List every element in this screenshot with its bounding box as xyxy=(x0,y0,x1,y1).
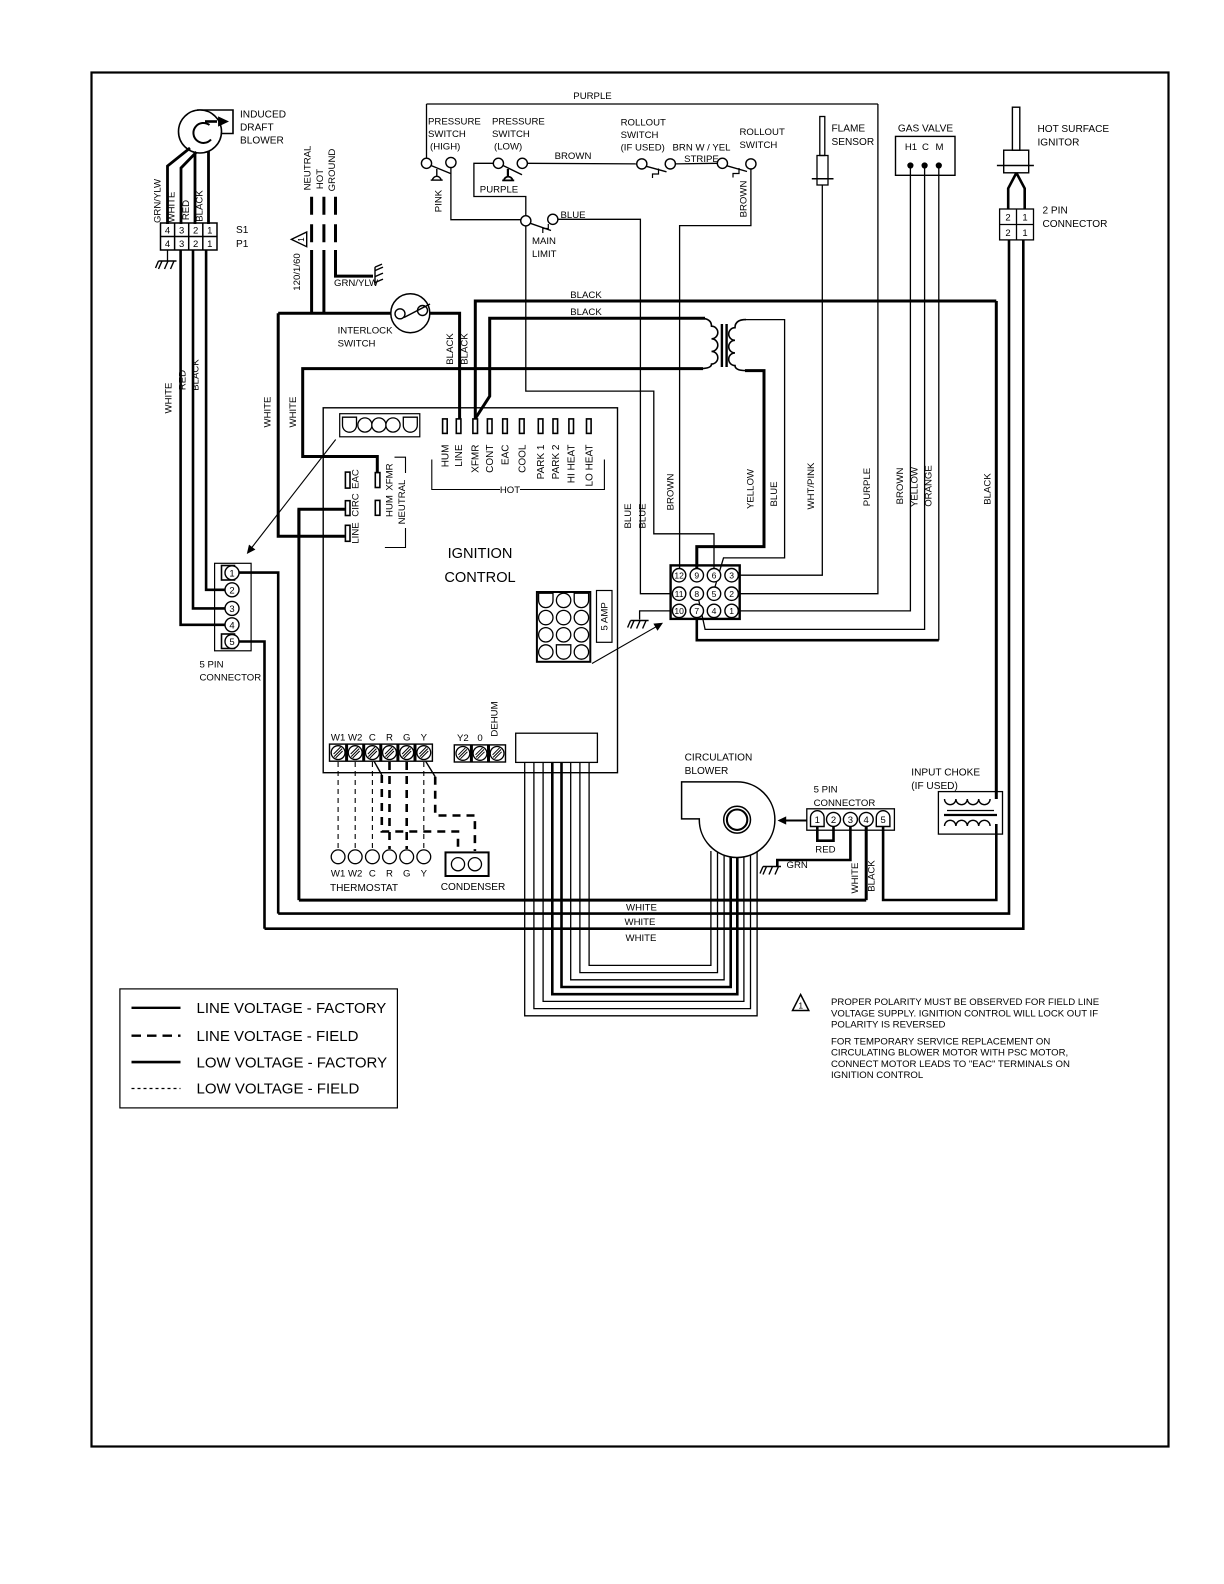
wire WHITE transformer primary return xyxy=(303,369,703,474)
svg-text:CONNECTOR: CONNECTOR xyxy=(814,798,876,809)
wire BROWN low switch to rollout (if used) xyxy=(527,162,636,165)
wire BLACK pin 5 to input choke xyxy=(883,824,996,900)
svg-text:GRN/YLW: GRN/YLW xyxy=(334,278,379,289)
5 pin connector pin 1 xyxy=(222,566,235,581)
blower connector pin 2 xyxy=(827,812,841,826)
fuse rating 5 AMP xyxy=(597,591,613,643)
svg-text:SWITCH: SWITCH xyxy=(428,129,466,140)
svg-text:HOT SURFACE: HOT SURFACE xyxy=(1038,124,1110,135)
svg-text:LINE: LINE xyxy=(351,522,362,543)
12-pin connector pin 8 xyxy=(690,587,703,600)
legend sample LOW VOLTAGE - FACTORY xyxy=(132,1061,181,1064)
svg-text:Y: Y xyxy=(421,733,428,744)
rollout switch xyxy=(717,158,727,168)
svg-text:RED: RED xyxy=(815,845,835,856)
svg-text:BLACK: BLACK xyxy=(570,290,602,301)
12-pin connector pin 3 xyxy=(725,569,738,582)
condenser xyxy=(446,852,489,876)
wire HOT dashed field xyxy=(322,197,325,252)
svg-text:ROLLOUT: ROLLOUT xyxy=(740,127,785,138)
svg-text:BLACK: BLACK xyxy=(570,307,602,318)
svg-text:4: 4 xyxy=(165,226,170,237)
svg-text:MAIN: MAIN xyxy=(532,236,556,247)
svg-text:CONTROL: CONTROL xyxy=(444,570,515,586)
svg-text:IGNITION CONTROL: IGNITION CONTROL xyxy=(831,1070,924,1081)
wire WHITE P1 pin3 to 5-pin connector pin4 xyxy=(181,250,225,625)
svg-text:R: R xyxy=(386,869,393,880)
12-pin connector pin 5 xyxy=(707,587,720,600)
wire YELLOW transformer secondary bottom to 12-pin pin 9 xyxy=(697,371,764,569)
wire BLACK blower to S1 pin1 xyxy=(207,151,210,224)
ground GRN (blower) xyxy=(760,867,781,875)
wire BROWN rollout to 12-pin pin 12 xyxy=(680,169,751,569)
svg-text:CONNECTOR: CONNECTOR xyxy=(200,673,262,684)
svg-text:CONNECTOR: CONNECTOR xyxy=(1043,219,1108,230)
svg-text:GRN: GRN xyxy=(787,860,808,871)
blower connector pin 4 xyxy=(859,812,873,826)
5 pin connector body (blower) xyxy=(807,809,895,830)
svg-text:WHITE: WHITE xyxy=(850,863,861,894)
svg-text:5: 5 xyxy=(229,637,234,648)
wire RED P1 pin2 to 5-pin connector pin3 xyxy=(193,250,225,608)
svg-text:BLUE: BLUE xyxy=(623,503,634,528)
svg-text:W1: W1 xyxy=(331,733,345,744)
svg-text:PARK 1: PARK 1 xyxy=(536,444,547,479)
connector S1/P1 body xyxy=(161,223,218,250)
svg-text:BLACK: BLACK xyxy=(445,333,456,365)
svg-text:3: 3 xyxy=(229,604,234,615)
wire Y thermostat dashed xyxy=(423,762,425,849)
circulation blower scroll xyxy=(682,782,775,858)
legend sample LINE VOLTAGE - FIELD xyxy=(132,1034,181,1036)
wire W2 thermostat dashed xyxy=(354,762,356,849)
wire NEUTRAL dashed field xyxy=(310,197,313,252)
svg-text:1: 1 xyxy=(1022,228,1027,239)
svg-text:(LOW): (LOW) xyxy=(494,142,522,153)
svg-text:SWITCH: SWITCH xyxy=(740,140,778,151)
wire Y to condenser xyxy=(426,762,435,777)
wire W1 thermostat dashed xyxy=(337,762,339,849)
12-pin connector pin 4 xyxy=(707,604,720,617)
svg-text:H1: H1 xyxy=(905,142,917,153)
svg-text:LINE VOLTAGE - FIELD: LINE VOLTAGE - FIELD xyxy=(197,1028,359,1045)
svg-text:4: 4 xyxy=(864,815,869,826)
svg-text:BROWN: BROWN xyxy=(738,181,749,218)
svg-text:10: 10 xyxy=(674,606,684,616)
svg-text:1: 1 xyxy=(229,568,234,579)
gas valve body xyxy=(896,136,956,175)
wire GROUND to earth xyxy=(336,250,374,276)
svg-text:M: M xyxy=(936,142,944,153)
svg-text:RED: RED xyxy=(181,200,192,220)
wire BLUE main limit in to 12-pin pin 6 xyxy=(526,226,714,569)
svg-text:PRESSURE: PRESSURE xyxy=(428,117,481,128)
gas valve terminal C xyxy=(922,163,927,168)
svg-text:(IF USED): (IF USED) xyxy=(621,143,665,154)
ground GRN/YLW earth symbol xyxy=(375,264,383,285)
svg-text:HI HEAT: HI HEAT xyxy=(567,445,578,484)
svg-text:W2: W2 xyxy=(348,733,362,744)
wire GROUND dashed field xyxy=(334,197,337,252)
svg-text:2 PIN: 2 PIN xyxy=(1043,206,1068,217)
wire PURPLE top run xyxy=(427,103,878,105)
svg-text:FLAME: FLAME xyxy=(832,124,866,135)
svg-text:CONNECT MOTOR LEADS TO "EAC" T: CONNECT MOTOR LEADS TO "EAC" TERMINALS O… xyxy=(831,1059,1070,1070)
ground at 12-pin pin 10 xyxy=(640,611,672,620)
wire neutral/hot horizontal at interlock level xyxy=(278,312,391,315)
svg-text:BLACK: BLACK xyxy=(191,359,202,391)
12-pin connector pin 9 xyxy=(690,569,703,582)
svg-text:W2: W2 xyxy=(348,869,362,880)
svg-text:HOT: HOT xyxy=(315,169,326,189)
svg-text:5 PIN: 5 PIN xyxy=(814,785,838,796)
svg-text:1: 1 xyxy=(207,239,212,250)
svg-text:THERMOSTAT: THERMOSTAT xyxy=(330,883,398,894)
blower lead connector (ignition control) xyxy=(516,733,598,762)
transformer T1 core xyxy=(721,324,723,367)
svg-text:9: 9 xyxy=(694,570,699,580)
svg-text:LO HEAT: LO HEAT xyxy=(584,445,595,487)
hot surface ignitor xyxy=(1012,107,1019,150)
svg-text:VOLTAGE SUPPLY. IGNITION CONT: VOLTAGE SUPPLY. IGNITION CONTROL WILL LO… xyxy=(831,1008,1098,1019)
wire BROWN gas valve H1 to 12-pin pin 1 xyxy=(739,168,911,611)
svg-text:RED: RED xyxy=(178,370,189,390)
input choke bottom winding xyxy=(945,820,991,826)
svg-text:2: 2 xyxy=(229,585,234,596)
svg-text:8: 8 xyxy=(694,589,699,599)
svg-text:2: 2 xyxy=(729,589,734,599)
svg-text:HOT: HOT xyxy=(500,485,520,496)
pressure switch (low) xyxy=(493,158,503,168)
transformer T1 primary winding xyxy=(700,318,718,368)
svg-text:C: C xyxy=(369,869,376,880)
legend sample LINE VOLTAGE - FACTORY xyxy=(132,1007,181,1009)
svg-text:3: 3 xyxy=(179,226,184,237)
svg-text:FOR TEMPORARY SERVICE REPLACEM: FOR TEMPORARY SERVICE REPLACEMENT ON xyxy=(831,1036,1050,1047)
12-pin connector pin 6 xyxy=(707,569,720,582)
terminal bar EAC (line side) xyxy=(345,472,350,488)
svg-text:WHITE: WHITE xyxy=(625,917,656,928)
svg-text:PURPLE: PURPLE xyxy=(573,91,611,102)
svg-text:PURPLE: PURPLE xyxy=(480,185,518,196)
wire 5-pin pin1 riser xyxy=(239,573,278,914)
wire rollout jumper xyxy=(675,162,717,165)
fuse block xyxy=(537,592,590,662)
svg-text:S1: S1 xyxy=(236,225,249,236)
svg-text:BLACK: BLACK xyxy=(195,190,206,222)
svg-text:1: 1 xyxy=(798,1001,803,1011)
svg-text:P1: P1 xyxy=(236,239,249,250)
svg-text:IGNITION: IGNITION xyxy=(448,546,513,562)
svg-text:3: 3 xyxy=(848,815,853,826)
wire BLUE transformer secondary top to 12-pin pin 5 xyxy=(715,320,785,589)
svg-text:LINE: LINE xyxy=(454,444,465,467)
svg-text:6: 6 xyxy=(712,570,717,580)
svg-text:PRESSURE: PRESSURE xyxy=(492,117,545,128)
svg-text:SWITCH: SWITCH xyxy=(621,130,659,141)
svg-text:2: 2 xyxy=(1005,228,1010,239)
thermostat terminal block W1 W2 C R G Y xyxy=(330,744,433,761)
svg-text:PURPLE: PURPLE xyxy=(862,468,873,506)
svg-text:SENSOR: SENSOR xyxy=(832,137,875,148)
ground at S1 pin4 xyxy=(167,250,169,261)
svg-text:BLOWER: BLOWER xyxy=(240,136,284,147)
wire NEUTRAL solid xyxy=(310,250,313,313)
dehum terminal block Y2 0 DEHUM xyxy=(454,745,505,762)
induced draft blower scroll body xyxy=(197,110,233,134)
svg-text:WHITE: WHITE xyxy=(288,397,299,428)
svg-text:CONDENSER: CONDENSER xyxy=(441,882,506,893)
svg-text:1: 1 xyxy=(207,226,212,237)
svg-text:7: 7 xyxy=(694,606,699,616)
wire HOT solid xyxy=(322,250,325,313)
wire PURPLE drop to 12-pin pin 2 xyxy=(739,104,878,594)
svg-text:ORANGE: ORANGE xyxy=(924,465,935,507)
svg-text:IGNITOR: IGNITOR xyxy=(1038,138,1080,149)
wire WHITE bus (blower pin4) xyxy=(299,899,866,902)
wire ORANGE gas valve M to 12-pin pin 7 xyxy=(938,168,940,640)
svg-text:1: 1 xyxy=(297,237,306,242)
ignitor leads to 2 pin connector xyxy=(1008,173,1016,209)
wire ignitor pin1 to 5-pin connector pin 5 xyxy=(265,240,1024,929)
svg-text:BLOWER: BLOWER xyxy=(685,766,729,777)
svg-text:3: 3 xyxy=(729,570,734,580)
svg-text:DRAFT: DRAFT xyxy=(240,123,274,134)
svg-text:GROUND: GROUND xyxy=(327,149,338,192)
svg-text:POLARITY IS REVERSED: POLARITY IS REVERSED xyxy=(831,1019,946,1030)
wire WHITE neutral riser down-left xyxy=(278,313,345,536)
svg-text:1: 1 xyxy=(815,815,820,826)
svg-text:INDUCED: INDUCED xyxy=(240,110,286,121)
wire BLUE main limit to 12-pin pin 11 xyxy=(558,219,672,593)
blower plug arrow xyxy=(786,820,807,822)
wire C to condenser xyxy=(374,762,382,776)
svg-text:EAC: EAC xyxy=(501,445,512,466)
terminal bar XFMR-N xyxy=(375,473,380,488)
wire YELLOW gas valve C to 12-pin pin 8 xyxy=(699,168,925,629)
svg-text:COOL: COOL xyxy=(517,444,528,473)
5 pin connector pin 2 xyxy=(225,583,239,597)
svg-text:0: 0 xyxy=(477,733,482,744)
svg-text:NEUTRAL: NEUTRAL xyxy=(397,479,408,524)
svg-text:1: 1 xyxy=(1022,213,1027,224)
wire BLACK to input choke top xyxy=(995,301,998,799)
ignition control 5-hole header xyxy=(340,414,420,437)
blower connector pin 1 xyxy=(811,811,825,827)
wire PINK high switch to main limit xyxy=(451,168,521,220)
rollout switch (if used) xyxy=(637,159,647,169)
legend sample LOW VOLTAGE - FIELD xyxy=(132,1088,181,1090)
svg-text:5: 5 xyxy=(880,815,885,826)
wire PURPLE low switch to main limit xyxy=(474,163,526,215)
transformer T1 secondary winding xyxy=(729,320,746,371)
wire BLACK P1 pin1 to 5-pin connector pin2 xyxy=(206,250,225,590)
svg-text:INPUT CHOKE: INPUT CHOKE xyxy=(911,768,980,779)
svg-text:BROWN: BROWN xyxy=(895,468,906,505)
wire white branch to CIRC terminal xyxy=(299,509,345,536)
svg-text:2: 2 xyxy=(831,815,836,826)
svg-text:WHITE: WHITE xyxy=(626,933,657,944)
svg-text:BRN W / YEL: BRN W / YEL xyxy=(673,143,732,154)
svg-text:WHITE: WHITE xyxy=(262,397,273,428)
5 pin connector body (left) xyxy=(215,563,252,651)
svg-text:(HIGH): (HIGH) xyxy=(430,142,460,153)
wire RED jumper pins 1-2 xyxy=(817,827,833,841)
input choke top winding xyxy=(945,799,991,805)
svg-text:YELLOW: YELLOW xyxy=(746,468,757,509)
wire C thermostat dashed xyxy=(371,762,373,849)
svg-text:HUM: HUM xyxy=(384,495,395,517)
wire GRN/YLW blower to S1 pin4 xyxy=(168,148,191,224)
svg-text:XFMR: XFMR xyxy=(384,463,395,490)
wire G thermostat dashed xyxy=(405,762,408,849)
wire 5-pin pin5 riser xyxy=(239,642,265,929)
svg-text:12: 12 xyxy=(674,570,684,580)
wire RED blower to S1 pin2 xyxy=(194,153,197,224)
svg-text:C: C xyxy=(922,142,929,153)
svg-text:ROLLOUT: ROLLOUT xyxy=(621,118,666,129)
svg-text:120/1/60: 120/1/60 xyxy=(292,253,303,290)
wire WHITE ignitor pin2 to 5-pin connector pin 1 xyxy=(278,240,1009,914)
svg-text:PINK: PINK xyxy=(433,189,444,212)
svg-text:BROWN: BROWN xyxy=(555,151,592,162)
svg-text:BLACK: BLACK xyxy=(867,860,878,892)
wire GRN pin 3 to ground xyxy=(777,827,850,867)
terminal bar HUM-N xyxy=(375,500,380,515)
svg-text:NEUTRAL: NEUTRAL xyxy=(303,145,314,190)
svg-text:BLACK: BLACK xyxy=(982,473,993,505)
5 pin connector pin 5 xyxy=(222,634,235,649)
svg-text:LIMIT: LIMIT xyxy=(532,249,557,260)
svg-text:4: 4 xyxy=(712,606,717,616)
svg-text:4: 4 xyxy=(165,239,170,250)
svg-text:STRIPE: STRIPE xyxy=(684,154,719,165)
terminal bar LINE (line side) xyxy=(345,525,350,541)
svg-text:LINE VOLTAGE - FACTORY: LINE VOLTAGE - FACTORY xyxy=(197,1000,387,1017)
input choke core xyxy=(947,810,994,812)
svg-text:EAC: EAC xyxy=(351,469,362,489)
svg-text:CIRCULATION: CIRCULATION xyxy=(685,753,753,764)
svg-text:G: G xyxy=(403,869,410,880)
svg-text:5 PIN: 5 PIN xyxy=(200,660,224,671)
svg-text:CIRCULATING BLOWER MOTOR WITH: CIRCULATING BLOWER MOTOR WITH PSC MOTOR, xyxy=(831,1048,1068,1059)
wire BLACK interlock to LINE terminal xyxy=(430,313,460,420)
circulation blower hub xyxy=(724,806,751,833)
5 pin connector pin 3 xyxy=(225,601,239,615)
12-pin connector pin 2 xyxy=(725,587,738,600)
svg-text:4: 4 xyxy=(229,620,234,631)
arrow fuse block to 12-pin connector xyxy=(592,625,660,664)
svg-text:SWITCH: SWITCH xyxy=(492,129,530,140)
flame sensor xyxy=(820,117,825,156)
12 pin connector body xyxy=(671,565,740,619)
wire WHITE blower to S1 pin3 xyxy=(181,152,197,224)
2 pin connector body xyxy=(1000,209,1034,240)
induced draft blower rotation arrow xyxy=(205,120,217,123)
12-pin connector pin 1 xyxy=(725,604,738,617)
svg-text:INTERLOCK: INTERLOCK xyxy=(338,326,394,337)
svg-text:2: 2 xyxy=(193,239,198,250)
12-pin connector pin 11 xyxy=(672,587,685,600)
svg-text:1: 1 xyxy=(729,606,734,616)
field polarity warning triangle 1 xyxy=(291,232,306,247)
svg-text:WHT/PINK: WHT/PINK xyxy=(806,462,817,510)
wire white neutral drop to bottom white bus xyxy=(297,509,300,900)
svg-text:3: 3 xyxy=(179,239,184,250)
5 pin connector pin 4 xyxy=(225,618,239,632)
svg-text:GRN/YLW: GRN/YLW xyxy=(153,178,164,223)
12-pin connector pin 10 xyxy=(672,604,685,617)
svg-text:2: 2 xyxy=(1005,213,1010,224)
gas valve terminal H1 xyxy=(908,163,913,168)
svg-text:CIRC: CIRC xyxy=(351,493,362,517)
12-pin connector pin 12 xyxy=(672,569,685,582)
svg-text:DEHUM: DEHUM xyxy=(490,701,501,736)
svg-text:LOW VOLTAGE - FACTORY: LOW VOLTAGE - FACTORY xyxy=(197,1054,388,1071)
wire R thermostat dashed xyxy=(388,762,391,849)
svg-text:BLUE: BLUE xyxy=(638,503,649,528)
svg-text:5 AMP: 5 AMP xyxy=(600,602,611,630)
ignition control enclosure xyxy=(323,408,617,773)
svg-text:XFMR: XFMR xyxy=(471,445,482,473)
12-pin connector pin 7 xyxy=(690,604,703,617)
svg-text:BLACK: BLACK xyxy=(459,333,470,365)
svg-text:W1: W1 xyxy=(331,869,345,880)
induced draft blower inner spiral xyxy=(193,123,211,143)
svg-text:CONT: CONT xyxy=(485,445,496,473)
svg-text:WHITE: WHITE xyxy=(626,903,657,914)
interlock switch xyxy=(391,294,430,333)
pressure switch (high) xyxy=(426,104,428,158)
svg-text:11: 11 xyxy=(675,589,684,599)
wire WHITE pin 4 to bus xyxy=(865,827,868,901)
blower connector pin 3 xyxy=(843,812,857,826)
svg-text:GAS VALVE: GAS VALVE xyxy=(898,124,953,135)
svg-text:5: 5 xyxy=(712,589,717,599)
HOT terminals bracket xyxy=(432,460,500,490)
main limit switch xyxy=(521,216,531,226)
legend box xyxy=(120,989,398,1108)
terminal bar CIRC xyxy=(345,501,350,516)
wire BLACK xfmr riser xyxy=(475,301,996,420)
svg-text:Y: Y xyxy=(421,869,428,880)
svg-text:BLUE: BLUE xyxy=(769,481,780,506)
circulation blower lead nest to ignition control xyxy=(525,762,757,1015)
svg-text:YELLOW: YELLOW xyxy=(910,466,921,507)
svg-text:HUM: HUM xyxy=(440,445,451,468)
blower connector pin 5 xyxy=(876,811,890,827)
thermostat terminals circles xyxy=(331,850,345,864)
svg-text:Y2: Y2 xyxy=(457,733,469,744)
wire BLACK transformer primary feed xyxy=(476,318,706,418)
svg-text:R: R xyxy=(386,733,393,744)
svg-text:WHITE: WHITE xyxy=(164,383,175,414)
terminal bars HUM..LO HEAT xyxy=(443,419,448,434)
svg-text:C: C xyxy=(369,733,376,744)
svg-text:LOW VOLTAGE - FIELD: LOW VOLTAGE - FIELD xyxy=(197,1081,360,1098)
svg-text:SWITCH: SWITCH xyxy=(338,339,376,350)
warning triangle 1 xyxy=(793,995,809,1011)
svg-text:G: G xyxy=(403,733,410,744)
input choke body xyxy=(938,792,1002,835)
gas valve terminal M xyxy=(936,163,941,168)
arrow header to 5 pin connector xyxy=(250,440,336,551)
svg-text:2: 2 xyxy=(193,226,198,237)
page border frame xyxy=(92,73,1169,1447)
svg-text:PARK 2: PARK 2 xyxy=(551,444,562,479)
svg-text:PROPER POLARITY MUST BE OBSERV: PROPER POLARITY MUST BE OBSERVED FOR FIE… xyxy=(831,997,1099,1008)
svg-text:(IF USED): (IF USED) xyxy=(911,781,958,792)
